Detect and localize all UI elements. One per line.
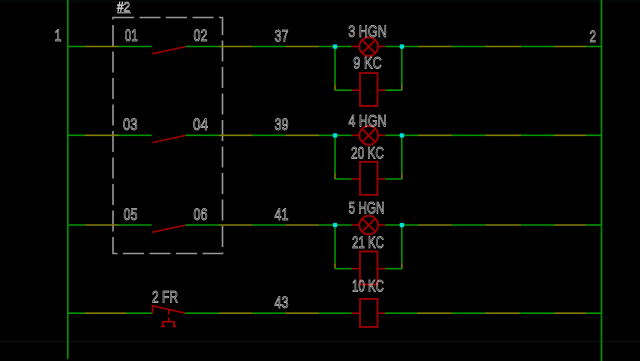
svg-text:3 HGN: 3 HGN xyxy=(348,23,387,41)
svg-text:1: 1 xyxy=(55,27,62,45)
svg-text:2: 2 xyxy=(590,28,597,46)
svg-text:03: 03 xyxy=(123,116,138,134)
svg-text:05: 05 xyxy=(124,206,138,224)
svg-text:20 KC: 20 KC xyxy=(351,145,384,163)
svg-text:10 KC: 10 KC xyxy=(352,278,384,296)
svg-text:37: 37 xyxy=(275,28,289,46)
svg-text:21 KC: 21 KC xyxy=(352,234,384,252)
svg-text:41: 41 xyxy=(275,206,289,224)
svg-text:06: 06 xyxy=(194,206,208,224)
svg-text:43: 43 xyxy=(275,294,289,312)
svg-text:04: 04 xyxy=(193,116,208,134)
svg-text:9 KC: 9 KC xyxy=(353,55,382,73)
svg-text:2 FR: 2 FR xyxy=(152,289,178,307)
svg-text:02: 02 xyxy=(194,27,208,45)
svg-text:39: 39 xyxy=(275,116,289,134)
svg-text:5 HGN: 5 HGN xyxy=(349,200,385,218)
svg-text:4 HGN: 4 HGN xyxy=(349,113,387,131)
svg-text:01: 01 xyxy=(125,27,138,45)
